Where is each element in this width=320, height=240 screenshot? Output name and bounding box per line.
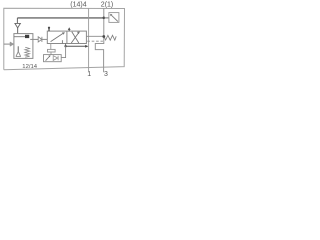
wire: triangle to pilot box top (17, 28, 19, 34)
return spring (right, horizontal zigzag) (105, 35, 117, 40)
wire: dark horizontal bus from exhaust to node at x=104 (17, 17, 103, 19)
wire: port (14)4 / 1 full-height vertical at x=88.6 (88, 8, 90, 72)
wire: pilot box output to check valve (30, 38, 38, 40)
wire: pilot input 12/14 from left border (4, 43, 10, 45)
left position: flow path diagonal with arrow (51, 33, 64, 42)
wire: stub from node to pilot square (104, 17, 109, 19)
armature plunger line (14, 36, 25, 38)
adjustable arrow inside (46, 56, 50, 61)
wire: throttle to flow control box (50, 52, 52, 55)
flow control box (44, 55, 62, 62)
pilot square with diagonal arrow (top right) (109, 13, 119, 23)
node: junction dot at (104,17.8) (103, 17, 106, 20)
pilot arrow triangle into box (10, 42, 14, 46)
throttle small rect (48, 49, 56, 52)
wire: valve bottom stub to throttle (50, 44, 52, 50)
right position: top port stub with up arrow (68, 28, 70, 31)
check valve (38, 37, 42, 42)
wire: junction dot and arrow into port 1 line (64, 45, 66, 47)
node: junction dot at (104,36.5) (102, 35, 105, 38)
svg-text:3: 3 (104, 71, 108, 78)
wire: pilot line valve to node2 (86, 35, 103, 37)
right position: crossed flow paths (71, 32, 79, 43)
return spring inside pilot box (25, 47, 30, 57)
poppet seat (flask shape) inside pilot box (16, 46, 21, 56)
enclosure border (4, 8, 125, 69)
wire: port 2(1) vertical from top border down to port 3 staircase (95, 8, 104, 72)
svg-text:1: 1 (87, 71, 91, 78)
wire: check valve to main valve (42, 38, 47, 40)
wire: junction down to flow control (61, 46, 65, 57)
left position: top port stub with dot (48, 28, 50, 32)
svg-text:2(1): 2(1) (101, 2, 113, 9)
wire: drop from bus to exhaust triangle (16, 18, 18, 23)
check valve inside flow control (53, 56, 58, 61)
svg-text:(14)4: (14)4 (70, 2, 86, 9)
pilot valve box (left) (14, 34, 33, 59)
armature black block (25, 35, 29, 38)
main valve body (two positions) (47, 31, 86, 43)
exhaust triangle above pilot box (15, 23, 21, 28)
svg-text:12/14: 12/14 (22, 64, 37, 70)
dashed pilot line (87, 40, 103, 42)
left position: blocked port stub (61, 40, 63, 43)
